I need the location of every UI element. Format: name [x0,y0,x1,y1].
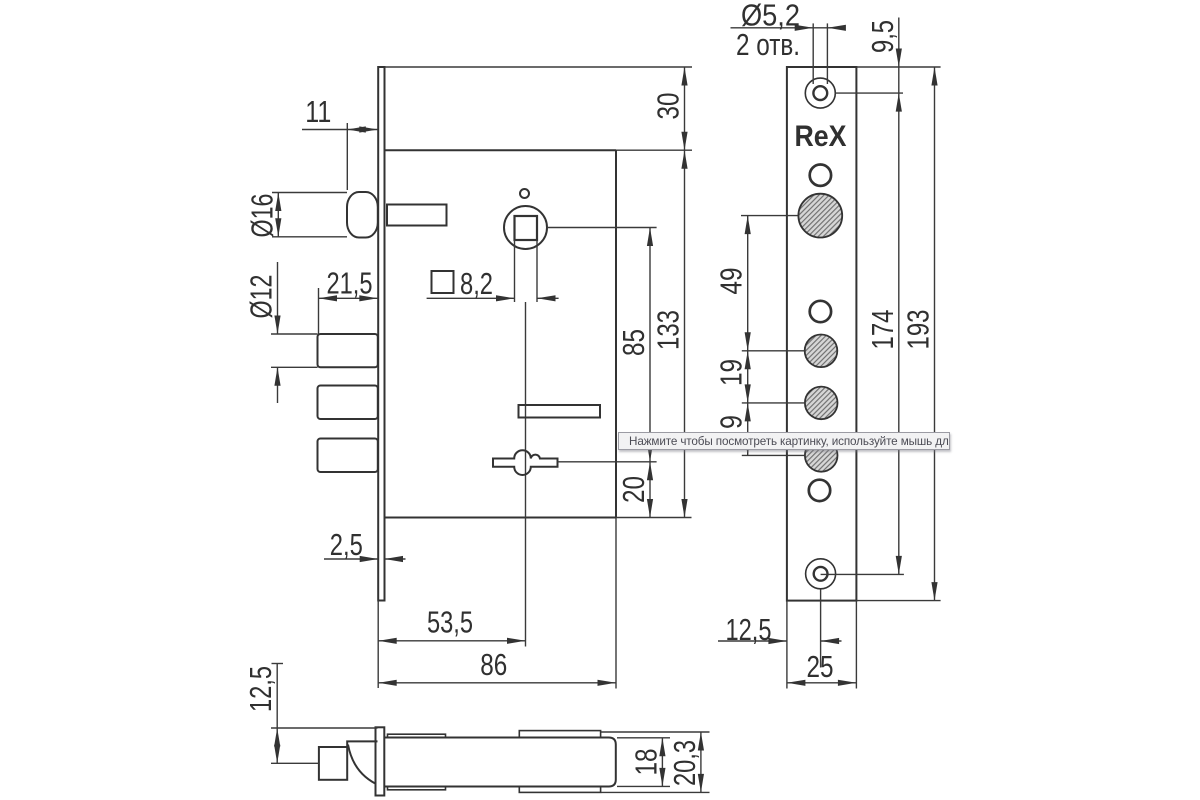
svg-text:25: 25 [807,649,834,684]
svg-text:193: 193 [901,310,936,350]
extension line plate right edge (dim 25) [855,601,857,689]
dimension line 12,5 right part [821,640,842,642]
extension line plate left edge (dim 12,5/25) [786,601,788,689]
latch bevel curve (side view) [348,745,376,784]
dimension line 85 [649,228,651,462]
svg-text:Ø12: Ø12 [243,275,278,319]
bottom screw hole outer (countersink) [806,559,836,589]
latch tail behind faceplate [387,205,447,226]
svg-text:8,2: 8,2 [460,266,493,301]
svg-text:11: 11 [305,94,331,129]
extension of case top edge (for dim 30/133) [616,149,692,151]
extension line rib top (dim 20,3) [601,731,710,733]
small pin hole above spindle [520,189,529,198]
leader from cylinder centre (for dim 85/20) [558,461,657,463]
svg-text:53,5: 53,5 [427,605,473,640]
small hole 1 [810,165,831,186]
extension line body bottom (dim 18) [617,785,670,787]
lock case bottom edge [385,517,617,519]
svg-text:20: 20 [616,476,651,503]
svg-text:86: 86 [480,647,507,682]
extension line plate top (dim 9,5/193) [856,66,940,68]
dimension line 49/19/9 [747,216,749,456]
svg-text:133: 133 [651,310,686,350]
svg-text:2,5: 2,5 [330,527,363,562]
svg-text:9: 9 [714,415,749,429]
bottom screw hole inner Ø5,2 [814,567,828,581]
deadbolt 1 (front view) [318,334,378,367]
svg-text:19: 19 [714,359,749,386]
top screw hole inner Ø5,2 [813,86,827,100]
extension line latch top (dim Ø16) [272,192,347,194]
dimension line 8,2 right part [537,297,559,299]
top screw hole outer (countersink) [805,78,835,108]
dimension line 86 [378,682,616,684]
deadbolt hole 2 (hatched) [805,387,838,420]
extension line from faceplate top (for dim 30) [385,66,693,68]
extension line (dim 11) [346,123,348,190]
lock case right edge [615,150,617,517]
dimension line 11 [302,129,378,131]
spindle follower circle [504,206,547,249]
dimension line 30 [684,67,686,150]
leader from spindle centre (for dim 85) [547,227,657,229]
lock case top edge [385,149,617,151]
extension line from square hole left side [514,240,516,302]
vertical centerline through spindle down to dim 53,5 [525,302,527,647]
svg-text:9,5: 9,5 [865,20,900,53]
lock body (side view) [384,738,616,787]
faceplate (front view, tall thin plate) [378,67,384,601]
dimension line 20,3 [700,732,702,792]
extension of faceplate left edge (dim 53,5/86) [377,601,379,689]
deadbolt hole 3 (hatched, partly behind tooltip) [805,439,838,472]
bottom rib B (side view) [519,787,600,793]
extension line bottom screw centre (dim 174) [821,573,904,575]
extension line (dim 21,5) [318,288,320,334]
svg-text:2 отв.: 2 отв. [736,27,800,62]
top rib A (side view) [388,734,446,737]
extension line from square hole right side [536,240,538,302]
svg-text:20,3: 20,3 [667,740,702,786]
svg-text:ReX: ReX [795,120,847,153]
dimension line 18 [661,738,663,787]
extension line plate bottom (dim 193) [856,600,940,602]
extension line body top (dim 18) [617,737,670,739]
browser tooltip overlay [618,432,950,450]
faceplate with holes (right view) [787,67,857,601]
svg-text:174: 174 [865,310,900,350]
dimension line Ø12 upper part [277,262,279,334]
svg-text:21,5: 21,5 [327,266,373,301]
follower bar inside case [519,405,601,418]
latch bolt (front view, rounded) [347,192,378,238]
deadbolt 2 (front view) [318,386,378,420]
extension line screw hole left (dim Ø5,2) [812,23,814,84]
svg-text:18: 18 [628,749,663,776]
extension line bolt hole 2 centre (dim 19/9) [742,402,806,404]
latch tail (side view) [319,747,347,780]
dimension line 133 [684,150,686,517]
extension line screw centreline (dim 12,5) [820,589,822,668]
square symbol of label 8,2 [432,271,454,293]
svg-text:30: 30 [651,93,686,120]
extension line latch bottom (dim Ø16) [272,236,347,238]
dimension line 12,5 left part [718,640,787,642]
dimension line 2,5 right part [385,558,406,560]
extension line latch hole centre (dim 49) [741,215,799,217]
small hole 2 [810,301,831,322]
svg-text:Ø16: Ø16 [244,194,279,238]
dimension line 193 [934,67,936,601]
extension of case right edge (for dim 86) [615,518,617,689]
dimension line 8,2 left part [427,297,515,299]
top rib B (side view) [519,731,600,738]
dimension line 9,5 and 174 [898,18,900,575]
dimension line Ø5,2 [731,27,846,29]
dimension line 12,5 [276,664,278,764]
dimension line 53,5 [378,640,525,642]
square spindle hole 8x8 [515,216,538,240]
dimension line 25 [787,682,857,684]
dimension line Ø12 lower part [277,367,279,403]
end tick of dimension line 12,5 [272,663,284,665]
svg-text:85: 85 [616,329,651,356]
dimension line 21,5 [319,297,378,299]
extension line bolt top (dim Ø12) [271,333,318,335]
extension line bolt hole 3 centre (dim 9) [742,454,806,456]
extension of case bottom (for dim 133/20) [616,517,692,519]
extension line bolt hole 1 centre (dim 49/19) [742,350,805,352]
extension line rib bottom (dim 20,3) [601,791,710,793]
small hole 3 [809,480,830,501]
extension line screw centre (dim 9,5/174) [835,92,903,94]
extension line plate top (dim 12,5) [271,727,378,729]
dimension line 2,5 left part [324,558,378,560]
extension line latch centre (dim 12,5) [271,762,319,764]
dimension line 20 [649,462,651,518]
deadbolt hole 1 (hatched) [805,335,838,368]
faceplate (side view) [376,727,385,795]
profile cylinder hole silhouette [493,450,558,475]
latch head outline (side view) [347,741,377,747]
extension line screw hole right (dim Ø5,2) [826,23,828,84]
svg-text:49: 49 [714,268,749,295]
bottom rib A (side view) [388,787,446,790]
svg-text:12,5: 12,5 [726,612,772,647]
dimension line Ø16 [277,193,279,237]
extension line bolt bottom (dim Ø12) [271,366,318,368]
latch hole Ø16 (hatched) [798,194,842,238]
svg-text:12,5: 12,5 [243,666,278,712]
deadbolt 3 (front view) [318,439,378,473]
